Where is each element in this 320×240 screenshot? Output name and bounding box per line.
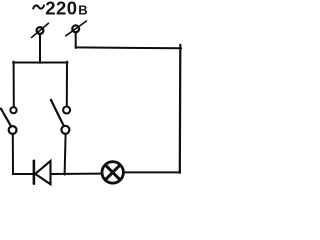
switch S1 (open, blade pivots on lower contact) — [1, 107, 17, 134]
wire: right side riser — [179, 45, 182, 173]
wire: left branch upper drop — [13, 62, 15, 107]
wire: right branch lower drop — [65, 134, 66, 175]
switch S2 (open, blade pivots on lower contact) — [51, 100, 70, 134]
terminal X2 (right, with slash) — [66, 21, 87, 36]
label ~220V source voltage — [33, 0, 87, 18]
svg-text:В: В — [78, 2, 87, 17]
svg-text:220: 220 — [45, 0, 77, 18]
lamp HL1 (circle with X) — [102, 162, 123, 183]
wire: X1 down to parallel bus — [39, 34, 41, 63]
wire: diode output to lamp — [51, 173, 102, 175]
wire: lamp to bottom-right corner — [124, 171, 180, 173]
wire: left branch lower drop and corner to diode — [13, 134, 33, 174]
junction: feed joins bus — [39, 62, 41, 64]
wire: top right run back to X2 — [76, 46, 182, 49]
wire: X2 down to top right run — [75, 32, 77, 48]
wire: right branch upper drop — [66, 62, 68, 107]
junction: S2 branch joins bottom wire — [64, 173, 66, 175]
wire: top bus of parallel branches — [13, 62, 68, 64]
terminal X1 (left, with slash) — [32, 23, 49, 37]
diode VD1 (cathode bar + triangle pointing left) — [34, 161, 51, 185]
